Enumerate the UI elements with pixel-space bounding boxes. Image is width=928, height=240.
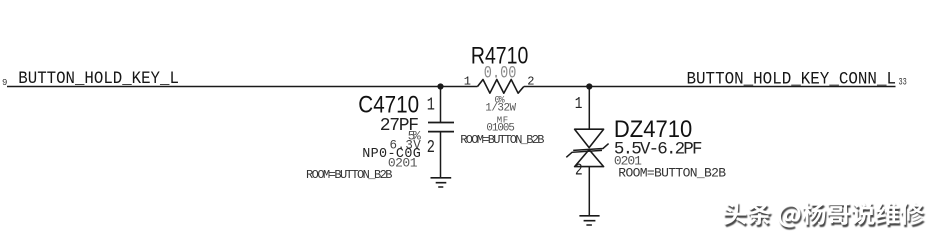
svg-text:ROOM=BUTTON_B2B: ROOM=BUTTON_B2B xyxy=(618,165,726,180)
svg-text:2: 2 xyxy=(427,137,435,157)
svg-text:1/32W: 1/32W xyxy=(485,103,516,115)
svg-text:BUTTON_HOLD_KEY_L: BUTTON_HOLD_KEY_L xyxy=(18,70,179,90)
svg-text:0.00: 0.00 xyxy=(484,65,517,84)
svg-text:C4710: C4710 xyxy=(358,91,419,118)
svg-text:9: 9 xyxy=(2,78,7,88)
svg-text:33: 33 xyxy=(899,77,907,88)
svg-text:BUTTON_HOLD_KEY_CONN_L: BUTTON_HOLD_KEY_CONN_L xyxy=(687,70,897,90)
svg-text:ROOM=BUTTON_B2B: ROOM=BUTTON_B2B xyxy=(306,168,393,182)
svg-text:1: 1 xyxy=(427,95,435,115)
svg-text:2: 2 xyxy=(575,162,583,180)
svg-text:2: 2 xyxy=(527,74,534,88)
svg-text:1: 1 xyxy=(464,74,471,88)
svg-text:1: 1 xyxy=(575,95,583,113)
svg-text:ROOM=BUTTON_B2B: ROOM=BUTTON_B2B xyxy=(460,133,544,147)
